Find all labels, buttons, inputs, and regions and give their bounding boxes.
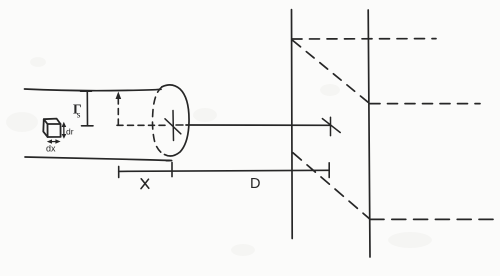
r_s dimension line (vertical with end caps)	[81, 91, 94, 126]
svg-text:s: s	[77, 111, 81, 121]
volume element cube (left face)	[43, 119, 47, 137]
svg-text:D: D	[250, 176, 260, 192]
volume element cube (front face)	[48, 124, 61, 137]
screen 2 (vertical line)	[368, 10, 370, 257]
bottom dashed horizontal projection	[370, 218, 493, 220]
top dashed horizontal projection	[292, 38, 436, 40]
axis end tick (diagonal)	[322, 119, 340, 133]
label r_s	[73, 102, 82, 121]
dx double arrow	[47, 139, 61, 144]
dimension tick at left (x start)	[118, 166, 120, 177]
label D	[250, 176, 260, 192]
solid axis line from ellipse to tick	[186, 124, 330, 126]
dr double arrow	[62, 122, 67, 139]
cylinder end ellipse (solid front arc)	[162, 85, 189, 156]
label dx	[46, 144, 56, 154]
svg-text:dr: dr	[66, 127, 74, 137]
volume element cube (top face)	[44, 119, 61, 124]
cylinder end ellipse (dashed rear arc)	[153, 87, 165, 155]
label dr	[66, 127, 74, 137]
svg-text:dx: dx	[46, 144, 56, 154]
middle dashed horizontal projection	[370, 103, 480, 105]
dimension tick at right (D end)	[328, 163, 330, 178]
dashed vertical arrow up to cylinder wall	[116, 92, 122, 126]
dashed horizontal line from dV element to ellipse centre	[117, 124, 168, 126]
bottom diagonal dashed projection	[293, 153, 370, 219]
axis end tick (vertical)	[330, 117, 332, 135]
dimension tick at cylinder end	[171, 162, 173, 176]
label x	[141, 179, 149, 189]
top diagonal dashed projection	[293, 41, 369, 104]
x and D dimension line	[119, 170, 330, 171]
ellipse centre cross (vertical stroke)	[172, 111, 175, 141]
screen 1 (vertical line)	[291, 10, 294, 239]
cylinder bottom line	[25, 157, 172, 161]
cylinder top line	[25, 89, 162, 91]
ellipse centre cross (diagonal stroke)	[165, 119, 181, 134]
dash-dot centre line inside ellipse	[176, 124, 186, 126]
